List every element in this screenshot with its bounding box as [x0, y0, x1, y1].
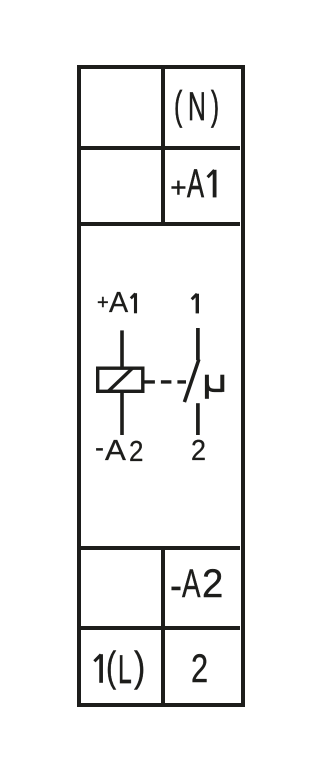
wire from +A1 node down to coil: [120, 330, 124, 366]
terminal grid horizontal line 2: [80, 222, 240, 226]
coil diagonal stroke: [108, 368, 133, 392]
micro-gap symbol µ right stem: [220, 375, 224, 392]
terminal label +A1: [0, 0, 323, 1]
terminal grid vertical divider top: [161, 68, 165, 226]
schematic node label +A1: [0, 0, 323, 1]
schematic label +A1 digit 1 glyph: [131, 293, 136, 313]
schematic node label -A2: [0, 0, 323, 1]
terminal label -A2: [0, 0, 323, 1]
wire from contact down to node 2: [196, 403, 200, 435]
device outline frame: [77, 65, 245, 707]
relay coil: [98, 368, 143, 391]
terminal label (N): [0, 0, 323, 1]
micro-gap symbol µ bowl: [207, 380, 222, 390]
terminal label 2: [0, 0, 323, 1]
terminal label 1(L) digit 1 glyph: [94, 654, 101, 683]
terminal grid horizontal line 1: [80, 146, 240, 150]
micro-gap symbol µ left stem: [205, 375, 209, 399]
dashed actuation link: [144, 380, 186, 383]
terminal grid vertical divider bottom: [161, 546, 165, 703]
schematic node label 1 glyph: [192, 294, 198, 314]
terminal label 1(L): [0, 0, 323, 1]
switch contact blade: [184, 359, 199, 402]
terminal grid horizontal line 4: [80, 626, 240, 630]
terminal label +A1 digit 1 glyph: [208, 170, 215, 198]
terminal grid horizontal line 3: [80, 546, 240, 550]
wire from node 1 down to contact: [196, 328, 200, 360]
schematic node label 2: [0, 0, 323, 1]
wire from coil down to -A2 node: [120, 393, 124, 435]
